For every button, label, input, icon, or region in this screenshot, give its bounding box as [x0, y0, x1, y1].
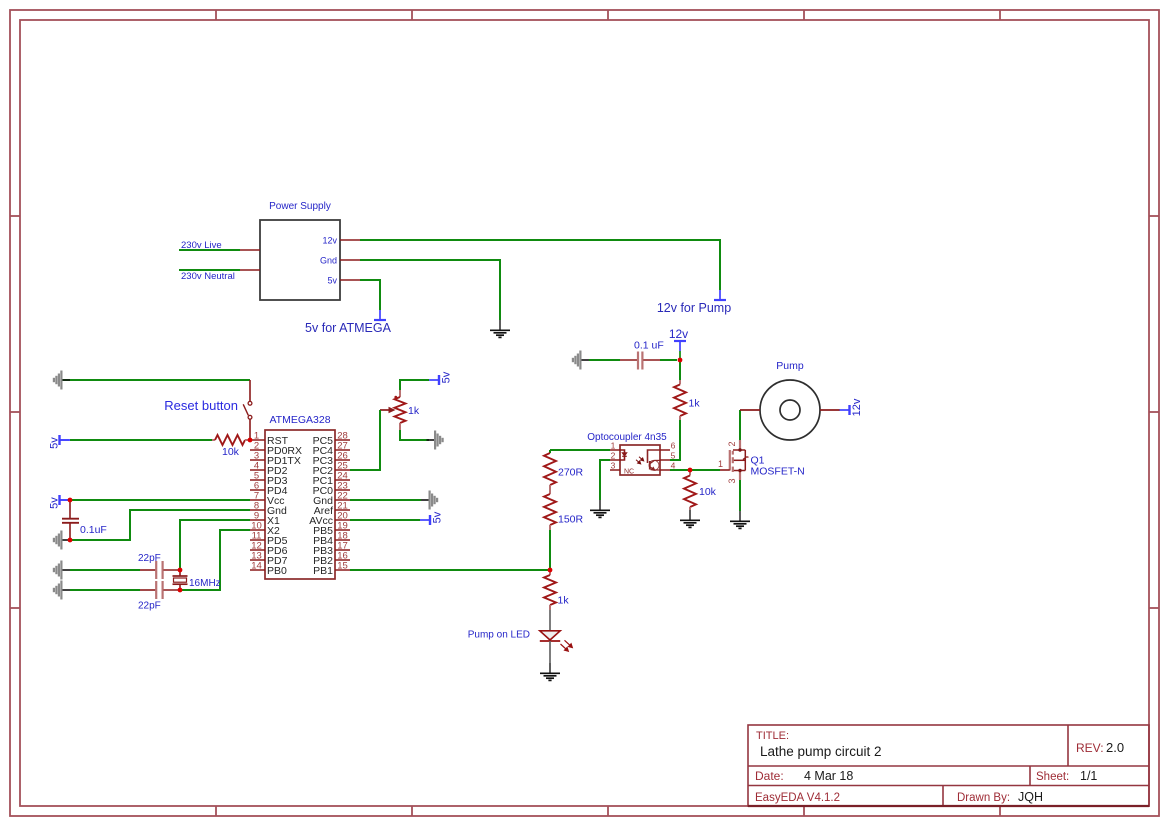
pin 2 PD0RX [250, 449, 265, 451]
capacitor C? 0.1uF [69, 500, 71, 518]
pin 3 NC [610, 469, 620, 471]
flag 5v for ATMEGA [379, 310, 381, 320]
pin 5 PD3 [250, 479, 265, 481]
svg-text:Pump: Pump [776, 360, 804, 372]
pin 20 AVcc [335, 519, 350, 521]
node junction (395.8,397.2) [394, 396, 397, 399]
svg-text:JQH: JQH [1018, 790, 1043, 804]
flag 12v (pump) [848, 405, 850, 415]
pump pin left [740, 409, 760, 411]
svg-text:16MHz: 16MHz [189, 578, 221, 589]
wire 150R to PB1 [549, 530, 551, 570]
pin 5 [660, 459, 670, 461]
svg-text:ATMEGA328: ATMEGA328 [269, 414, 330, 426]
pin 24 PC1 [335, 479, 350, 481]
node junction (70,500) [68, 498, 73, 503]
svg-text:1/1: 1/1 [1080, 769, 1097, 783]
ground (earth) mosfet [739, 511, 741, 521]
pin 26 PC3 [335, 459, 350, 461]
pin 21 Aref [335, 509, 350, 511]
svg-text:PB1: PB1 [313, 565, 333, 577]
resistor R? 270R [549, 450, 551, 453]
wire 5v to 10k [70, 439, 212, 441]
svg-text:REV:: REV: [1076, 741, 1104, 755]
pin 4 PD2 [250, 469, 265, 471]
pin 230v Live [240, 249, 260, 251]
ground (earth) 10k [689, 510, 691, 520]
node junction (740,450) [738, 448, 741, 451]
svg-text:12v: 12v [851, 398, 863, 416]
wire PC2 to wiper [350, 410, 380, 470]
wire Gnd net [360, 260, 500, 320]
node junction (180,590) [178, 588, 183, 593]
wire PB1 pin15 [350, 569, 550, 571]
pin 8 Gnd [250, 509, 265, 511]
resistor R? 1k (LED) [549, 570, 551, 575]
svg-text:5v: 5v [327, 276, 337, 286]
wire Gnd pin22 [350, 499, 421, 501]
svg-text:PB0: PB0 [267, 565, 287, 577]
ground arrow (gray) cap [62, 539, 70, 541]
svg-text:5: 5 [671, 451, 676, 461]
pin 6 PD4 [250, 489, 265, 491]
pin 14 PB0 [250, 569, 265, 571]
pin 12v [340, 239, 360, 241]
svg-text:1k: 1k [558, 595, 570, 607]
ground (earth) LED [549, 663, 551, 673]
pin 17 PB3 [335, 549, 350, 551]
svg-text:Date:: Date: [755, 769, 784, 783]
node junction (680,360) [678, 358, 683, 363]
node junction (70,540) [68, 538, 73, 543]
flag 12v [674, 340, 686, 342]
svg-text:12v for Pump: 12v for Pump [657, 301, 731, 315]
svg-text:Drawn By:: Drawn By: [957, 792, 1010, 804]
wire Gnd pin8 [70, 510, 250, 540]
svg-text:22pF: 22pF [138, 553, 161, 564]
pin 3 PD1TX [250, 459, 265, 461]
wire AVcc pin20 [350, 519, 420, 521]
svg-text:3: 3 [611, 461, 616, 471]
wire X2 pin10 [180, 530, 250, 590]
potentiometer R? 1k [399, 390, 401, 397]
capacitor C? 22pF (bottom) [62, 589, 70, 591]
svg-text:12v: 12v [669, 327, 688, 341]
ground (earth) opto [599, 500, 601, 510]
pin 2 [610, 459, 620, 461]
svg-text:Sheet:: Sheet: [1036, 771, 1069, 783]
capacitor C? 0.1 uF (12v) [581, 359, 589, 361]
transistor Q1 MOSFET-N [739, 440, 741, 450]
pin 23 PC0 [335, 489, 350, 491]
svg-text:0.1uF: 0.1uF [80, 524, 107, 536]
pin 16 PB2 [335, 559, 350, 561]
pin 6 [660, 449, 670, 451]
pin 7 Vcc [250, 499, 265, 501]
pin 15 PB1 [335, 569, 350, 571]
frame zone ticks [215, 10, 217, 20]
svg-text:5v: 5v [441, 371, 453, 383]
opto phototransistor [648, 450, 661, 470]
flag 5v (RST pull-up) [58, 435, 60, 445]
wire source to ground [739, 480, 741, 511]
resistor R? 150R [549, 490, 551, 494]
wire Vcc pin7 [70, 499, 250, 501]
wire X1 pin9 [180, 520, 250, 570]
wire 1k to opto pin5 [670, 420, 680, 460]
svg-text:4 Mar 18: 4 Mar 18 [804, 769, 853, 783]
switch S1 Reset button [249, 380, 251, 401]
svg-text:5v: 5v [432, 511, 444, 523]
svg-text:5v for ATMEGA: 5v for ATMEGA [305, 321, 392, 335]
svg-text:2: 2 [727, 441, 737, 446]
node junction (690,470) [688, 468, 693, 473]
svg-text:TITLE:: TITLE: [756, 730, 789, 742]
svg-text:1k: 1k [689, 398, 701, 410]
svg-text:6: 6 [671, 441, 676, 451]
svg-text:0.1 uF: 0.1 uF [634, 340, 664, 352]
svg-text:12v: 12v [322, 236, 337, 246]
svg-text:2: 2 [611, 451, 616, 461]
svg-text:MOSFET-N: MOSFET-N [751, 466, 805, 478]
net label 230v Neutral + wire [179, 269, 240, 271]
pin 5v [340, 279, 360, 281]
wire opto pin4 to gate [670, 469, 720, 471]
svg-text:NC: NC [624, 469, 634, 476]
svg-text:14: 14 [251, 561, 262, 572]
pin 3 source [739, 471, 741, 481]
svg-text:1: 1 [718, 459, 723, 469]
svg-text:Reset button: Reset button [164, 398, 238, 413]
wire opto pin2 to ground [600, 460, 610, 500]
wire 5v net [360, 280, 380, 310]
svg-text:10k: 10k [699, 486, 717, 498]
ground arrow (gray) pin22 [421, 499, 429, 501]
op IC U? ATMEGA328 body [265, 430, 335, 579]
svg-text:EasyEDA V4.1.2: EasyEDA V4.1.2 [755, 792, 840, 804]
ground arrow (gray) pot [427, 439, 435, 441]
svg-text:270R: 270R [558, 467, 584, 479]
pin 18 PB4 [335, 539, 350, 541]
resistor R? 10k (gate) [689, 470, 691, 476]
pump pin right [820, 409, 840, 411]
node junction (250,440) [248, 438, 253, 443]
svg-text:Gnd: Gnd [320, 256, 337, 266]
flag 5v (pot top) [438, 375, 440, 385]
pin 25 PC2 [335, 469, 350, 471]
pin 10 X2 [250, 529, 265, 531]
crystal X? 16MHz [179, 570, 181, 576]
opto light arrows [636, 457, 644, 464]
capacitor C? 22pF (top) [62, 569, 70, 571]
svg-text:15: 15 [337, 561, 348, 572]
pin 19 PB5 [335, 529, 350, 531]
svg-text:5v: 5v [49, 437, 61, 449]
title block [748, 725, 1149, 806]
svg-text:150R: 150R [558, 514, 584, 526]
net label 230v Live + wire [179, 249, 240, 251]
pin 27 PC4 [335, 449, 350, 451]
svg-text:1k: 1k [408, 405, 420, 417]
pin 9 X1 [250, 519, 265, 521]
pin 12 PD6 [250, 549, 265, 551]
svg-text:2.0: 2.0 [1106, 740, 1124, 755]
wire pot bottom [400, 430, 429, 440]
pin 13 PD7 [250, 559, 265, 561]
LED emission arrows [561, 640, 573, 651]
pin 230v Neutral [240, 269, 260, 271]
svg-text:Optocoupler 4n35: Optocoupler 4n35 [587, 432, 667, 443]
svg-text:Power Supply: Power Supply [269, 201, 331, 212]
wire 12v net [360, 240, 720, 290]
svg-text:Pump on LED: Pump on LED [468, 630, 530, 641]
svg-text:3: 3 [727, 478, 737, 483]
svg-text:230v Neutral: 230v Neutral [181, 271, 235, 282]
pin 11 PD5 [250, 539, 265, 541]
svg-text:Lathe pump circuit 2: Lathe pump circuit 2 [760, 744, 882, 759]
pin 28 PC5 [335, 439, 350, 441]
svg-text:230v Live: 230v Live [181, 240, 222, 251]
ground arrow (gray) reset [62, 379, 70, 381]
pot wiper arrow [380, 409, 390, 411]
ground (earth) power supply [499, 320, 501, 330]
svg-text:10k: 10k [222, 446, 240, 458]
svg-text:1: 1 [611, 441, 616, 451]
node junction (180,570) [178, 568, 183, 573]
wire reset to ground [62, 379, 250, 381]
opto internal LED [620, 450, 627, 460]
wire pot top [400, 380, 429, 390]
pin Gnd [340, 259, 360, 261]
wire opto pin1 [550, 449, 610, 451]
pin 1 RST [250, 439, 265, 441]
pin 22 Gnd [335, 499, 350, 501]
node junction (740,470.5) [738, 469, 741, 472]
node junction (550,570) [548, 568, 553, 573]
flag 5v (AVcc) [429, 515, 431, 525]
svg-text:22pF: 22pF [138, 601, 161, 612]
LED D? Pump on LED [549, 610, 551, 631]
pin 4 [660, 469, 670, 471]
flag 12v for Pump [719, 290, 721, 300]
resistor R? 1k (12v to opto) [679, 360, 681, 380]
pin 1 [610, 449, 620, 451]
svg-text:5v: 5v [49, 497, 61, 509]
power supply block U? [260, 220, 340, 300]
wire drain to pump [739, 410, 741, 440]
pin 1 gate [720, 469, 730, 471]
resistor R? 10k [212, 439, 215, 441]
flag 5v (Vcc) [58, 495, 60, 505]
